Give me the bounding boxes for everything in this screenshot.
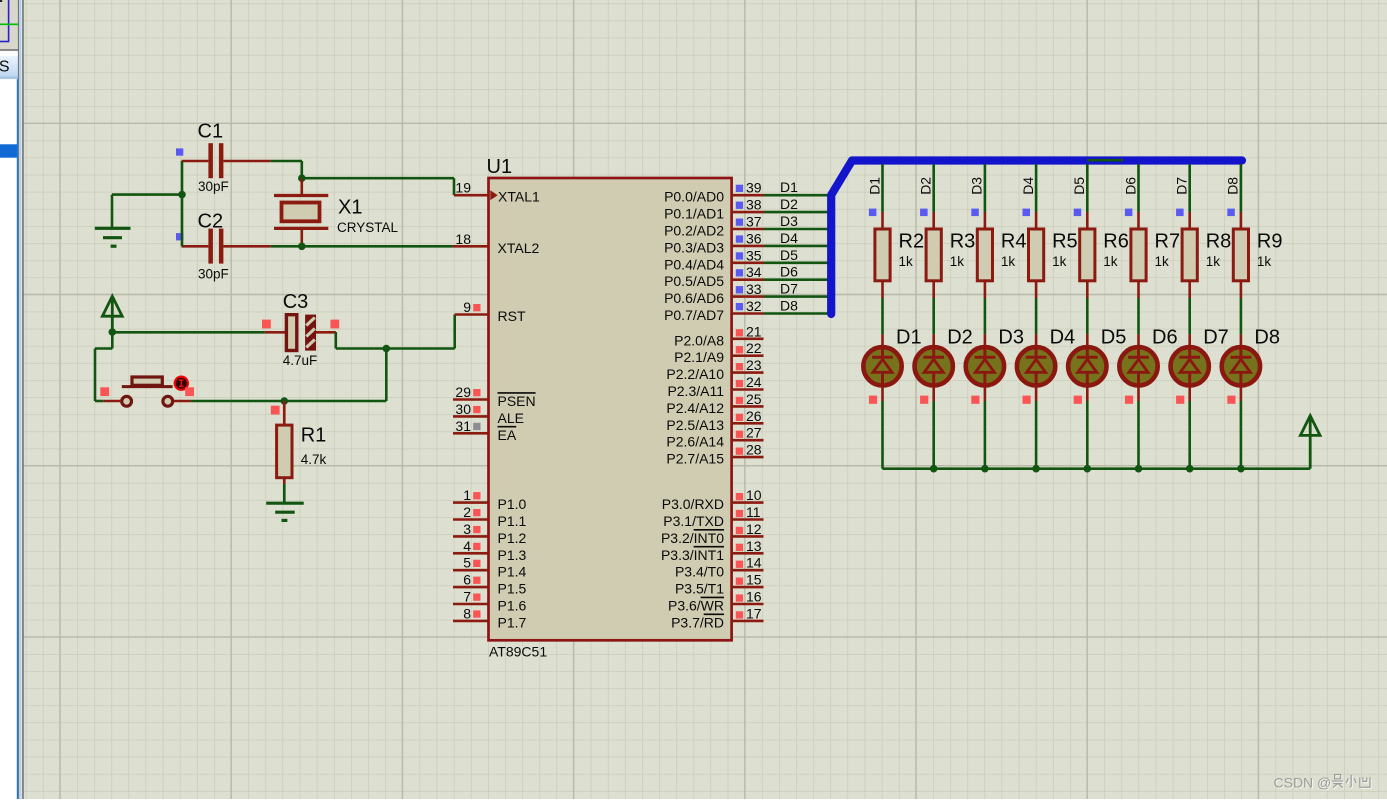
pin 38 P0.1 stub <box>732 211 764 214</box>
svg-text:1k: 1k <box>1155 254 1170 269</box>
pin 5 P1.4 stub <box>453 569 489 572</box>
pin 9 state marker <box>473 304 480 311</box>
svg-text:P2.2/A10: P2.2/A10 <box>666 366 724 382</box>
pin marker C3 right <box>330 320 339 329</box>
svg-text:P0.3/AD3: P0.3/AD3 <box>664 239 724 255</box>
pin marker D2 bottom <box>920 396 928 404</box>
junction VCC node <box>109 328 117 336</box>
svg-text:17: 17 <box>746 605 762 621</box>
UI overview viewport line (green) <box>0 23 18 25</box>
wire bus to R3 (net D2) <box>932 164 935 212</box>
pin 10 P3.0 stub <box>732 501 764 504</box>
svg-text:R5: R5 <box>1052 231 1078 253</box>
wire RST node down to button <box>191 349 386 402</box>
junction R1 top <box>281 397 289 405</box>
wire bus to R9 (net D8) <box>1240 164 1243 212</box>
pin 16 state marker <box>736 594 743 601</box>
svg-text:33: 33 <box>746 281 762 297</box>
pin 26 P2.5 stub <box>732 422 764 425</box>
svg-text:4.7k: 4.7k <box>301 452 327 467</box>
UI white list area <box>0 79 17 799</box>
LED D4 <box>1017 347 1055 385</box>
svg-text:P0.4/AD4: P0.4/AD4 <box>664 256 724 272</box>
pin 37 state marker (blue) <box>736 219 743 226</box>
svg-text:D4: D4 <box>780 230 798 246</box>
wire crystal top stub <box>300 178 303 195</box>
wire C1 right pin <box>223 160 270 163</box>
wire VCC to C3 <box>112 331 264 334</box>
wire R1 top stub <box>283 401 286 425</box>
pin 5 state marker <box>473 560 480 567</box>
push button actuator <box>122 377 173 387</box>
svg-text:32: 32 <box>746 298 762 314</box>
svg-text:31: 31 <box>455 418 471 434</box>
svg-text:P3.3/INT1: P3.3/INT1 <box>661 547 724 563</box>
terminal marker (blue) at R8 <box>1176 209 1184 217</box>
wire D5 bottom <box>1086 386 1089 469</box>
pin 12 state marker <box>736 527 743 534</box>
junction at C1/C2/ground <box>178 191 186 199</box>
svg-text:D8: D8 <box>1254 327 1280 349</box>
junction rail at D3 <box>981 465 989 473</box>
svg-text:D7: D7 <box>1203 327 1229 349</box>
pin 3 state marker <box>473 526 480 533</box>
pin 35 P0.4 stub <box>732 261 764 264</box>
svg-text:P2.0/A8: P2.0/A8 <box>674 332 724 348</box>
pin marker D5 bottom <box>1074 396 1082 404</box>
svg-text:4.7uF: 4.7uF <box>283 353 318 368</box>
svg-text:1k: 1k <box>1206 254 1221 269</box>
terminal marker (blue) at C2 left <box>176 233 183 240</box>
pin marker D3 bottom <box>971 396 979 404</box>
pin marker D1 bottom <box>869 396 877 404</box>
LED D2 <box>915 347 953 385</box>
pin 25 state marker <box>736 397 743 404</box>
svg-text:AT89C51: AT89C51 <box>489 644 547 660</box>
pin 25 P2.4 stub <box>732 405 764 408</box>
junction rail at D8 <box>1237 465 1245 473</box>
terminal marker (blue) at R9 <box>1227 209 1235 217</box>
junction crystal bottom <box>298 243 306 251</box>
svg-text:1k: 1k <box>1001 254 1016 269</box>
svg-text:P1.1: P1.1 <box>498 513 527 529</box>
UI overview panel background <box>0 0 20 50</box>
resistor R6 <box>1080 229 1095 281</box>
wire net D3 from pin 37 <box>764 228 828 231</box>
svg-text:RST: RST <box>498 308 526 324</box>
svg-text:D6: D6 <box>1152 327 1178 349</box>
svg-text:XTAL1: XTAL1 <box>498 189 540 205</box>
wire bus to R5 (net D4) <box>1035 164 1038 212</box>
wire D4 bottom <box>1035 386 1038 469</box>
wire C3 to RST node <box>336 332 455 349</box>
pin 2 P1.1 stub <box>453 518 489 521</box>
pin name P3.7/RD <box>671 614 724 630</box>
wire R2 to D1 <box>881 281 884 347</box>
svg-text:C1: C1 <box>198 121 224 143</box>
svg-text:11: 11 <box>746 504 761 520</box>
pin 1 state marker <box>473 492 480 499</box>
svg-text:P1.3: P1.3 <box>498 547 527 563</box>
junction rail at D2 <box>930 465 938 473</box>
svg-text:D3: D3 <box>780 213 798 229</box>
pin 7 state marker <box>473 594 480 601</box>
capacitor C1 plates <box>208 143 223 178</box>
wire D8 bottom <box>1240 386 1243 469</box>
wire net D6 from pin 34 <box>764 278 828 281</box>
svg-text:25: 25 <box>746 391 762 407</box>
svg-text:CRYSTAL: CRYSTAL <box>337 220 399 235</box>
svg-text:D7: D7 <box>1174 177 1190 195</box>
svg-text:1k: 1k <box>1052 254 1067 269</box>
svg-text:S: S <box>0 59 9 76</box>
pin 33 P0.6 stub <box>732 295 764 298</box>
wire R9 top stub <box>1240 212 1243 229</box>
pin 32 state marker (blue) <box>736 303 743 310</box>
svg-text:R6: R6 <box>1103 231 1129 253</box>
svg-text:P2.7/A15: P2.7/A15 <box>666 451 724 467</box>
svg-text:D7: D7 <box>780 281 798 297</box>
pin 30 state marker <box>473 406 480 413</box>
junction crystal top <box>298 174 306 182</box>
pin 22 P2.1 stub <box>732 354 764 357</box>
pin 4 P1.3 stub <box>453 552 489 555</box>
pin 1 P1.0 stub <box>453 501 489 504</box>
wire net D2 from pin 38 <box>764 211 828 214</box>
XTAL1 clock arrow <box>490 190 497 200</box>
svg-text:30pF: 30pF <box>198 179 229 194</box>
pin 31 state marker <box>473 423 480 430</box>
svg-text:1: 1 <box>463 487 471 503</box>
pin 38 state marker (blue) <box>736 202 743 209</box>
pin marker R1 top <box>271 406 280 415</box>
pin 27 P2.6 stub <box>732 439 764 442</box>
pin 30 ALE stub <box>453 415 489 418</box>
svg-text:28: 28 <box>746 442 762 458</box>
pin name P3.6/WR <box>668 597 724 613</box>
svg-text:22: 22 <box>746 340 762 356</box>
junction rail at D7 <box>1186 465 1194 473</box>
pin 24 state marker <box>736 380 743 387</box>
svg-text:D2: D2 <box>780 196 798 212</box>
pin 34 state marker (blue) <box>736 269 743 276</box>
terminal marker (blue) at R5 <box>1023 209 1031 217</box>
LED D1 <box>863 347 901 385</box>
crystal X1 <box>274 196 328 229</box>
pin 4 state marker <box>473 543 480 550</box>
wire C2 right pin <box>223 245 270 248</box>
pin 21 state marker <box>736 329 743 336</box>
pin marker D4 bottom <box>1023 396 1031 404</box>
svg-text:P3.1/TXD: P3.1/TXD <box>663 513 724 529</box>
junction rail at D5 <box>1084 465 1092 473</box>
svg-text:23: 23 <box>746 357 762 373</box>
svg-text:P2.4/A12: P2.4/A12 <box>666 400 724 416</box>
wire net D7 from pin 33 <box>764 295 828 298</box>
terminal marker (blue) at C1 left <box>176 148 183 155</box>
svg-text:3: 3 <box>463 521 471 537</box>
pin 28 P2.7 stub <box>732 456 764 459</box>
pin 7 P1.6 stub <box>453 603 489 606</box>
pin 16 P3.6 stub <box>732 603 764 606</box>
svg-text:R1: R1 <box>301 424 327 446</box>
svg-text:6: 6 <box>463 572 471 588</box>
svg-text:39: 39 <box>746 180 762 196</box>
wire D2 bottom <box>932 386 935 469</box>
svg-text:P0.5/AD5: P0.5/AD5 <box>664 273 724 289</box>
svg-text:27: 27 <box>746 425 762 441</box>
wire R7 top stub <box>1137 212 1140 229</box>
LED D7 <box>1171 347 1209 385</box>
pin 8 P1.7 stub <box>453 620 489 623</box>
pin 39 P0.0 stub <box>732 194 764 197</box>
LED D6 <box>1119 347 1157 385</box>
wire C2 left pin <box>182 245 209 248</box>
terminal marker (blue) at R2 <box>869 209 877 217</box>
LED D3 <box>966 347 1004 385</box>
pin 31 EA stub <box>453 432 489 435</box>
svg-text:D5: D5 <box>1071 177 1087 195</box>
svg-text:38: 38 <box>746 197 762 213</box>
pin 15 P3.5 stub <box>732 586 764 589</box>
svg-text:XTAL2: XTAL2 <box>498 240 540 256</box>
svg-text:9: 9 <box>463 299 471 315</box>
svg-text:P3.2/INT0: P3.2/INT0 <box>661 530 724 546</box>
svg-text:D5: D5 <box>780 247 798 263</box>
svg-text:D3: D3 <box>998 327 1024 349</box>
wire R6 top stub <box>1086 212 1089 229</box>
wire segment along bus (green) <box>1087 159 1123 162</box>
pin 29 PSEN stub <box>453 398 489 401</box>
capacitor C3 (polarized) <box>286 315 316 351</box>
pin 15 state marker <box>736 578 743 585</box>
svg-text:2: 2 <box>463 504 471 520</box>
wire R7 to D6 <box>1137 281 1140 347</box>
pin 33 state marker (blue) <box>736 286 743 293</box>
svg-text:P1.5: P1.5 <box>498 581 527 597</box>
svg-text:P3.6/WR: P3.6/WR <box>668 598 724 614</box>
pin 9 RST wire <box>455 313 489 316</box>
resistor R3 <box>926 229 941 281</box>
pin 6 state marker <box>473 577 480 584</box>
svg-text:29: 29 <box>455 384 471 400</box>
terminal marker (blue) at R7 <box>1125 209 1133 217</box>
resistor R8 <box>1182 229 1197 281</box>
svg-text:R9: R9 <box>1257 231 1283 253</box>
svg-text:P2.6/A14: P2.6/A14 <box>666 434 724 450</box>
svg-text:R4: R4 <box>1001 231 1027 253</box>
ground symbol (R1) <box>266 503 304 520</box>
wire C1 to crystal (green) <box>271 161 302 178</box>
pin 26 state marker <box>736 414 743 421</box>
svg-text:P2.3/A11: P2.3/A11 <box>667 383 724 399</box>
svg-text:13: 13 <box>746 538 762 554</box>
pin 23 P2.2 stub <box>732 371 764 374</box>
svg-text:P2.1/A9: P2.1/A9 <box>674 349 724 365</box>
capacitor C2 plates <box>208 229 223 264</box>
svg-text:19: 19 <box>455 180 471 196</box>
pin 36 state marker (blue) <box>736 235 743 242</box>
wire R4 top stub <box>984 212 987 229</box>
svg-text:D1: D1 <box>896 327 922 349</box>
wire net D8 from pin 32 <box>764 312 828 315</box>
svg-text:D5: D5 <box>1101 327 1127 349</box>
svg-text:14: 14 <box>746 555 762 571</box>
wire crystal to XTAL1 <box>302 178 454 195</box>
power symbol VCC (reset) <box>102 296 122 332</box>
pin 11 P3.1 stub <box>732 518 764 521</box>
svg-text:P1.6: P1.6 <box>498 598 527 614</box>
terminal marker (blue) at R4 <box>971 209 979 217</box>
junction rail at D6 <box>1135 465 1143 473</box>
svg-text:PSEN: PSEN <box>498 393 536 409</box>
terminal marker (blue) at R6 <box>1074 209 1082 217</box>
svg-text:4: 4 <box>463 538 471 554</box>
pin name P3.2/INT0 <box>661 530 724 546</box>
svg-text:21: 21 <box>746 323 762 339</box>
pin 39 state marker (blue) <box>736 185 743 192</box>
wire D7 bottom <box>1188 386 1191 469</box>
UI overview corner mark <box>0 0 2 2</box>
terminal marker (blue) at R3 <box>920 209 928 217</box>
pin 10 state marker <box>736 493 743 500</box>
pin name PSEN (overlined) <box>498 393 536 409</box>
wire C1 left pin <box>182 160 209 163</box>
UI list header <box>0 53 18 79</box>
wire C3 right pin <box>316 331 336 334</box>
ground symbol (oscillator) <box>95 228 131 246</box>
wire D3 bottom <box>984 386 987 469</box>
pin marker D7 bottom <box>1176 396 1184 404</box>
svg-text:P1.7: P1.7 <box>498 614 527 630</box>
pin 6 P1.5 stub <box>453 586 489 589</box>
svg-text:D8: D8 <box>780 298 798 314</box>
wire bus to R2 (net D1) <box>881 164 884 212</box>
UI panel separator <box>0 50 20 52</box>
svg-text:D1: D1 <box>780 179 798 195</box>
svg-text:P1.2: P1.2 <box>498 530 527 546</box>
svg-text:P1.0: P1.0 <box>498 496 527 512</box>
svg-text:P2.5/A13: P2.5/A13 <box>666 417 724 433</box>
wire C2 to XTAL2 (green) <box>271 245 453 248</box>
pin 11 state marker <box>736 510 743 517</box>
svg-text:24: 24 <box>746 374 762 390</box>
svg-text:P3.7/RD: P3.7/RD <box>671 614 724 630</box>
svg-text:36: 36 <box>746 230 762 246</box>
svg-text:10: 10 <box>746 487 762 503</box>
wire bus to R6 (net D5) <box>1086 164 1089 212</box>
resistor R7 <box>1131 229 1146 281</box>
wire R8 to D7 <box>1188 281 1191 347</box>
svg-text:P0.2/AD2: P0.2/AD2 <box>664 223 724 239</box>
svg-text:D8: D8 <box>1225 177 1241 195</box>
pin 34 P0.5 stub <box>732 278 764 281</box>
svg-text:EA: EA <box>498 427 517 443</box>
wire to ground (left) <box>112 195 182 229</box>
op chip U1 body <box>489 178 732 640</box>
wire R8 top stub <box>1188 212 1191 229</box>
svg-text:D2: D2 <box>947 327 973 349</box>
wire bus to R4 (net D3) <box>984 164 987 212</box>
UI overview sheet outline (blue) <box>0 0 9 42</box>
wire R6 to D5 <box>1086 281 1089 347</box>
bus P0 (blue) <box>831 161 1242 315</box>
resistor R9 <box>1233 229 1248 281</box>
svg-text:1k: 1k <box>1257 254 1272 269</box>
pin 3 P1.2 stub <box>453 535 489 538</box>
pin 22 state marker <box>736 346 743 353</box>
svg-text:R8: R8 <box>1206 231 1232 253</box>
svg-text:15: 15 <box>746 572 762 588</box>
svg-text:X1: X1 <box>338 197 362 219</box>
pin 2 state marker <box>473 509 480 516</box>
svg-text:5: 5 <box>463 555 471 571</box>
pin 18 XTAL2 wire <box>453 245 489 248</box>
svg-text:D6: D6 <box>780 264 798 280</box>
svg-text:1k: 1k <box>950 254 965 269</box>
svg-text:37: 37 <box>746 214 762 230</box>
pin 14 P3.4 stub <box>732 569 764 572</box>
wire R9 to D8 <box>1240 281 1243 347</box>
wire crystal bottom stub <box>300 228 303 246</box>
pin 36 P0.3 stub <box>732 245 764 248</box>
svg-text:D2: D2 <box>918 177 934 195</box>
pin 13 P3.3 stub <box>732 552 764 555</box>
pin marker C3 left <box>262 320 271 329</box>
svg-text:P0.1/AD1: P0.1/AD1 <box>664 206 724 222</box>
pin 27 state marker <box>736 431 743 438</box>
svg-text:R7: R7 <box>1155 231 1181 253</box>
pin 37 P0.2 stub <box>732 228 764 231</box>
pin 35 state marker (blue) <box>736 252 743 259</box>
resistor R4 <box>977 229 992 281</box>
junction rail at D4 <box>1032 465 1040 473</box>
pin marker D8 bottom <box>1227 396 1235 404</box>
svg-text:30: 30 <box>455 401 471 417</box>
UI inner gray edge <box>18 0 19 799</box>
resistor R2 <box>875 229 890 281</box>
UI outer gray edge <box>22 0 23 799</box>
svg-text:16: 16 <box>746 589 762 605</box>
svg-text:35: 35 <box>746 247 762 263</box>
resistor R1 <box>277 425 292 478</box>
svg-text:P0.0/AD0: P0.0/AD0 <box>664 189 724 205</box>
svg-text:D4: D4 <box>1020 177 1036 195</box>
svg-text:P0.7/AD7: P0.7/AD7 <box>664 307 724 323</box>
pin name EA (overlined) <box>498 427 517 443</box>
svg-text:P0.6/AD6: P0.6/AD6 <box>664 290 724 306</box>
svg-text:18: 18 <box>455 231 471 247</box>
pin 13 state marker <box>736 544 743 551</box>
svg-text:26: 26 <box>746 408 762 424</box>
UI light blue strip <box>19 0 22 799</box>
pin name P3.3/INT1 <box>661 547 724 563</box>
wire VCC node to button <box>95 332 112 401</box>
UI selected row <box>0 144 18 157</box>
svg-text:1k: 1k <box>1103 254 1118 269</box>
wire R5 top stub <box>1035 212 1038 229</box>
power symbol VCC (LED rail) <box>1300 416 1320 469</box>
common anode rail <box>883 467 1311 470</box>
button interaction marker <box>175 377 188 390</box>
svg-text:CSDN @: CSDN @ <box>1274 775 1332 791</box>
pin 12 P3.2 stub <box>732 535 764 538</box>
pin 14 state marker <box>736 561 743 568</box>
pin 19 XTAL1 wire <box>454 194 489 197</box>
wire C1-C2 vertical <box>181 161 184 246</box>
svg-text:P1.4: P1.4 <box>498 564 527 580</box>
pin marker D6 bottom <box>1125 396 1133 404</box>
